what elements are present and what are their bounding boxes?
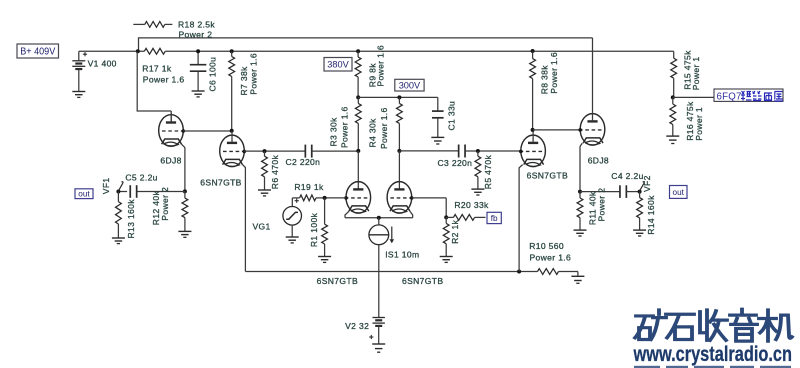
ground under R5 [471,188,484,190]
ground under C1 [431,136,444,138]
wire to heater bias label [673,96,714,98]
triode 6DJ8 U-left [159,115,184,147]
node plate-left diff junction [356,149,360,153]
ground under V2 [372,343,385,345]
wire grid-left coupling net y=151 [244,150,305,152]
ground under R11 [574,229,587,231]
node bracket center [377,216,381,220]
svg-text:6DJ8: 6DJ8 [160,156,181,166]
node R20/R2 junction [444,215,448,219]
node output-left junction [183,189,187,193]
svg-text:R14 160k: R14 160k [646,195,656,235]
wire B+ top rail (409V) [139,37,593,39]
wire input grid net [325,197,346,199]
svg-text:380V: 380V [327,59,349,70]
svg-text:C3 220n: C3 220n [438,158,473,168]
probe VF2 [638,190,642,194]
triode 6SN7GTB diff-right [387,182,412,214]
svg-text:300V: 300V [399,80,421,91]
svg-text:R17 1k: R17 1k [142,63,172,73]
capacitor C6 100u [197,51,199,64]
svg-text:6FQ7: 6FQ7 [717,91,742,102]
ground under R2 [440,256,453,258]
svg-text:out: out [78,190,90,199]
resistor R18 2.5k (floating above rail) [133,23,145,25]
probe VF1 [116,190,120,194]
node junction dot at R17/battery/riser [136,49,140,53]
triode 6SN7GTB diff-left [346,182,371,214]
svg-text:Power 1: Power 1 [691,56,701,90]
svg-text:Power 1.6: Power 1.6 [375,45,385,87]
resistor R15 475k [673,51,675,58]
wire 380V net y=51 to right corner [165,50,674,52]
svg-text:R4 30k: R4 30k [368,118,378,148]
resistor R8 38k [531,49,535,53]
svg-text:Power 2: Power 2 [160,187,170,221]
svg-text:Power 1: Power 1 [694,107,704,141]
capacitor C3 220n [458,145,460,158]
svg-text:VF1: VF1 [101,177,111,194]
svg-text:IS1 10m: IS1 10m [385,249,419,259]
svg-text:fb: fb [491,214,498,223]
svg-text:6DJ8: 6DJ8 [588,155,609,165]
resistor R11 40k [579,192,581,198]
svg-text:C5 2.2u: C5 2.2u [125,173,157,183]
wire diff-right grid net [412,197,447,199]
ground under R14 [633,229,646,231]
node label box 6FQ7 heater bias [714,89,783,101]
svg-text:Power 1.6: Power 1.6 [143,75,185,85]
resistor R5 470k [476,149,480,153]
resistor R12 40k [184,191,186,198]
svg-text:R7 38k: R7 38k [239,66,249,96]
node label box fb [487,212,501,223]
resistor R6 470k [263,149,267,153]
capacitor C5 2.2u [118,191,127,193]
resistor R16 475k [672,97,674,104]
resistor R19 1k [292,197,299,199]
watermark logo CJK [635,309,792,341]
svg-text:C4 2.2u: C4 2.2u [611,171,643,181]
wire left 6DJ8 plate connection [136,51,138,111]
svg-text:Power 1.6: Power 1.6 [379,107,389,149]
ground under R12 [178,230,191,232]
resistor R4 30k [397,95,401,99]
resistor R17 1k in series [144,48,165,54]
battery V1 400 [78,51,80,61]
triode 6DJ8 right [580,114,605,146]
svg-text:Power 2: Power 2 [597,188,607,222]
svg-text:www.crystalradio.cn: www.crystalradio.cn [633,343,792,366]
svg-text:Power 1.6: Power 1.6 [339,106,349,148]
svg-text:R8 38k: R8 38k [540,65,550,95]
svg-text:C1 33u: C1 33u [447,101,457,131]
svg-text:6SN7GTB: 6SN7GTB [317,276,358,286]
svg-text:R10 560: R10 560 [529,241,564,251]
ground under R6 [258,189,271,191]
node label box 300V [395,79,424,91]
ground under V1 [72,91,85,93]
svg-text:V1 400: V1 400 [88,58,117,68]
svg-text:C6 100u: C6 100u [208,57,218,92]
svg-text:6SN7GTB: 6SN7GTB [402,276,443,286]
svg-text:R5 470k: R5 470k [483,155,493,190]
svg-text:Power 1.6: Power 1.6 [248,53,258,95]
capacitor C1 33u [437,97,439,111]
svg-text:R6 470k: R6 470k [270,155,280,190]
svg-text:V2 32: V2 32 [345,321,369,331]
wire 6SN7-left cathode to bottom rail [243,165,246,168]
svg-text:R18 2.5k: R18 2.5k [178,19,215,29]
wire C3 coupling net y=151 right [399,150,458,152]
svg-text:B+ 409V: B+ 409V [20,47,55,58]
node label box B+ 409V [17,44,59,58]
triode 6SN7GTB right output [521,135,546,167]
resistor R2 1k [445,217,447,223]
ground under R10 [571,275,584,277]
wire right 6DJ8 grid to R8 node [533,129,581,131]
node right output junction [578,190,582,194]
svg-text:Power 2: Power 2 [179,30,213,40]
node label box 380V [324,58,352,72]
wire 300V net y=97 [356,95,360,99]
node rail/right-cathode junction [517,270,521,274]
wire 6DJ8 grid to R7 node [183,130,231,132]
svg-text:VF2: VF2 [642,175,652,192]
resistor R1 100k [324,198,326,224]
wire cathode bracket diff pair [345,211,349,218]
resistor R10 560 [538,269,559,275]
ground under R13 [112,237,125,239]
resistor R20 33k [446,216,453,218]
resistor R3 30k [357,97,359,103]
svg-text:R20 33k: R20 33k [454,200,489,210]
resistor R13 160k [117,192,119,202]
node R8/grid/plate junction [531,128,535,132]
wire 6DJ8 cathode down to output node [182,144,185,147]
wire plate-right to tube [398,151,400,190]
ground under VG1 [286,236,299,238]
wire bottom cathode rail [245,271,537,273]
triode 6SN7GTB left output [220,135,245,167]
node R19/R1 junction [323,196,327,200]
battery V2 32 [373,317,385,319]
resistor R7 38k [230,49,234,53]
resistor R14 160k [639,192,641,198]
ground under C6 [192,90,205,92]
svg-text:6SN7GTB: 6SN7GTB [200,177,241,187]
svg-text:out: out [673,188,685,197]
svg-text:6SN7GTB: 6SN7GTB [527,170,568,180]
wire riser rail to B+ node [138,37,140,51]
svg-text:R1 100k: R1 100k [309,212,319,247]
capacitor C4 2.2u [580,191,620,193]
svg-text:R19 1k: R19 1k [294,182,324,192]
svg-text:R3 30k: R3 30k [329,117,339,147]
ground under R1 [318,256,331,258]
node label box out right [670,186,688,199]
ground under R16 [666,135,679,137]
svg-text:Power 1.6: Power 1.6 [530,253,572,263]
source IS1 current 10m [378,218,380,225]
capacitor C2 220n [304,145,306,158]
svg-text:Power 1.6: Power 1.6 [549,52,559,94]
svg-text:C2 220n: C2 220n [286,157,321,167]
node plate-right diff junction [397,149,401,153]
resistor R9 8k [356,49,360,53]
svg-text:VG1: VG1 [253,221,271,231]
wire right 6DJ8 cathode down [580,143,582,146]
source VG1 sine [291,198,293,207]
wire right 6SN7 cathode to rail [519,165,523,168]
svg-text:R2 1k: R2 1k [450,219,460,243]
node junction R7/6DJ8grid/6SN7 plate [230,129,234,133]
svg-text:R13 160k: R13 160k [126,199,136,239]
node label box out left [75,189,93,199]
wire main B+ horizontal net y=51 [79,50,145,52]
wire plate-left to tube [357,151,359,190]
node R15/R16 junction [671,95,675,99]
